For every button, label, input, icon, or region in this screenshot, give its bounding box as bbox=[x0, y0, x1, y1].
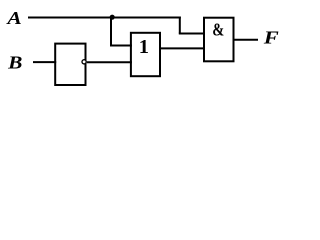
wire: AND gate U3 output to F bbox=[234, 39, 259, 41]
svg-text:B: B bbox=[7, 53, 22, 73]
svg-text:&: & bbox=[212, 19, 224, 39]
wire: input A horizontal run bbox=[28, 17, 181, 19]
output label F bbox=[263, 28, 279, 48]
svg-text:1: 1 bbox=[139, 36, 149, 58]
wire: upper input stub into OR gate U2 bbox=[110, 45, 132, 47]
AND gate U3 body bbox=[204, 18, 234, 62]
inverter U1 (NOT gate) body bbox=[55, 44, 85, 85]
inversion bubble on U1 output bbox=[82, 60, 86, 64]
svg-text:A: A bbox=[6, 8, 22, 28]
node: junction dot on A wire bbox=[110, 15, 115, 20]
wire: AND gate U3 upper input bbox=[179, 33, 205, 35]
OR gate U2 label "1" bbox=[139, 36, 149, 58]
AND gate U3 label "&" bbox=[212, 19, 224, 39]
OR gate U2 body bbox=[131, 33, 160, 76]
wire: vertical drop from junction dot bbox=[110, 17, 112, 46]
input label A bbox=[6, 8, 22, 28]
wire: input B to inverter U1 bbox=[33, 61, 56, 63]
wire: jog down from A wire to AND gate upper input bbox=[179, 17, 181, 34]
wire: OR gate U2 output to AND gate lower input bbox=[160, 47, 205, 49]
input label B bbox=[7, 53, 22, 73]
wire: U1 output to OR gate lower input bbox=[87, 61, 132, 63]
svg-text:F: F bbox=[263, 28, 279, 48]
